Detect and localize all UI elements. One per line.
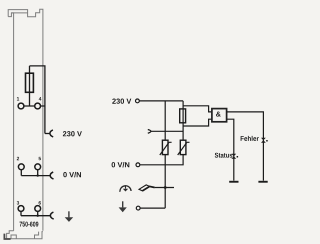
wire row1 terminals [21,105,45,107]
terminal circle 0V/N right [136,163,140,167]
jumper contact chevron 230V [148,130,151,134]
ground bar Fehler [258,181,267,183]
tap after fuse to AND gate [183,119,212,126]
earth arrow left [65,211,74,222]
Fehler output wire [227,112,264,181]
terminal 3 [18,206,24,212]
0V/N rail [140,155,183,165]
foot latch dark [4,234,10,239]
terminal 5 [35,164,41,170]
wire row3 terminals [21,211,51,215]
wire varistor R1 top [164,101,166,140]
terminal 1 [18,103,24,109]
Status output wire [227,119,234,180]
label 0 V/N right [112,162,130,168]
wire varistor R1 bottom to earth net [164,155,166,209]
clamp earth [50,212,53,219]
label Fehler [241,136,259,141]
clamp 0V/N [50,172,53,179]
junction row3 [37,215,39,217]
wire jumper line [151,130,183,132]
varistor R2 [178,140,190,155]
230V rail [139,100,183,102]
power jumper contact flag [139,185,155,191]
fuse F2 [180,109,186,123]
terminal circle 230V right [136,99,140,103]
terminal 6 [35,206,41,212]
ground bar Status [229,181,238,183]
wire rail to fuse to varistor R2 [182,101,184,140]
wire fuse vertical [29,66,31,106]
label 230 V left [63,131,82,136]
terminal 4 [35,103,41,109]
wire bridge to clamp 230V [30,66,45,134]
varistor R1 [160,140,172,155]
wire earth bottom row [140,207,165,209]
label Status [215,153,233,158]
AND gate U1 [212,109,227,122]
label 0 V/N left [63,172,81,178]
junction earth net [164,186,167,189]
label 230 V right [112,99,131,104]
LED symbol Fehler [261,138,268,143]
terminal 2 [18,164,24,170]
module foot [7,231,43,239]
terminal circle earth right [136,206,140,210]
wire row2 terminals [21,170,50,176]
label 750-609 [20,222,39,227]
junction row2 [37,174,39,176]
fuse F1 [26,73,34,92]
earth arrow right [119,201,127,212]
LED symbol Status [231,154,238,159]
clamp 230V [45,133,50,135]
tap before fuse to AND gate [183,106,212,112]
functional earth symbol (arc with arrow) [120,185,131,192]
wire earth mid row [155,187,174,189]
module body outline left edge and top latch [8,9,43,231]
